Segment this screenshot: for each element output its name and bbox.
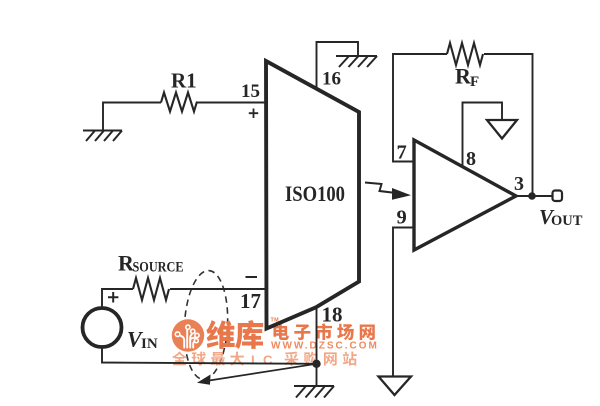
watermark bottom row <box>172 351 356 365</box>
op-amp U2 triangle <box>414 140 516 250</box>
plus at source <box>108 292 118 303</box>
plus at pin 15 <box>249 109 258 119</box>
svg-text:I: I <box>251 352 255 367</box>
junction dot bottom <box>312 360 320 368</box>
watermark big row 维库 <box>206 320 263 349</box>
svg-text:IN: IN <box>141 336 158 352</box>
svg-text:3: 3 <box>514 173 524 195</box>
output wire pin 3 <box>516 195 552 197</box>
svg-text:C: C <box>263 352 273 367</box>
feedback right wire <box>484 54 533 196</box>
svg-text:15: 15 <box>241 81 260 102</box>
ground G2 (hatched, pin16) <box>336 56 377 67</box>
svg-text:WWW.DZSC.COM: WWW.DZSC.COM <box>271 341 379 352</box>
svg-text:SOURCE: SOURCE <box>133 260 184 276</box>
resistor RSOURCE <box>133 278 169 300</box>
wire ground to R1 <box>103 103 161 131</box>
ground G5 (open triangle) <box>379 377 412 396</box>
watermark logo disc <box>172 319 204 351</box>
ground G1 (left, hatched) <box>83 131 122 142</box>
isolation amplifier U1 ISO100 trapezoid <box>266 61 359 329</box>
wire bottom rail <box>102 347 317 364</box>
svg-text:ISO100: ISO100 <box>285 181 345 206</box>
pin 7 wire + feedback left <box>393 54 447 162</box>
shield arrow to ellipse <box>206 364 317 381</box>
source VIN circle <box>83 308 122 347</box>
ground G4 (open triangle) <box>487 120 517 139</box>
svg-text:9: 9 <box>397 207 407 229</box>
minus at pin 17 <box>246 276 258 278</box>
terminal square <box>553 191 563 202</box>
pin 9 wire <box>393 228 414 377</box>
signal squiggle arrow <box>365 183 394 193</box>
pin 8 wire <box>463 103 503 167</box>
junction dot output <box>528 192 536 200</box>
resistor R1 <box>161 93 197 112</box>
svg-text:16: 16 <box>322 69 341 90</box>
wire RSOURCE to pin 17 <box>170 288 266 290</box>
watermark row 电子市场网 <box>273 323 374 340</box>
wire R1 to pin 15 <box>197 102 266 104</box>
svg-text:F: F <box>470 74 479 90</box>
svg-text:8: 8 <box>466 148 476 170</box>
svg-text:R1: R1 <box>171 69 197 93</box>
ground G3 (hatched, pin18) <box>294 386 334 398</box>
resistor RF <box>447 43 483 65</box>
svg-text:7: 7 <box>397 142 407 164</box>
pin 16 wire <box>317 42 359 89</box>
svg-text:OUT: OUT <box>551 213 583 229</box>
shield guard dashed ellipse <box>182 269 231 380</box>
svg-text:17: 17 <box>240 289 261 313</box>
pin 18 wire <box>316 307 318 386</box>
wire source to RSOURCE <box>102 289 133 308</box>
svg-text:18: 18 <box>322 303 343 327</box>
